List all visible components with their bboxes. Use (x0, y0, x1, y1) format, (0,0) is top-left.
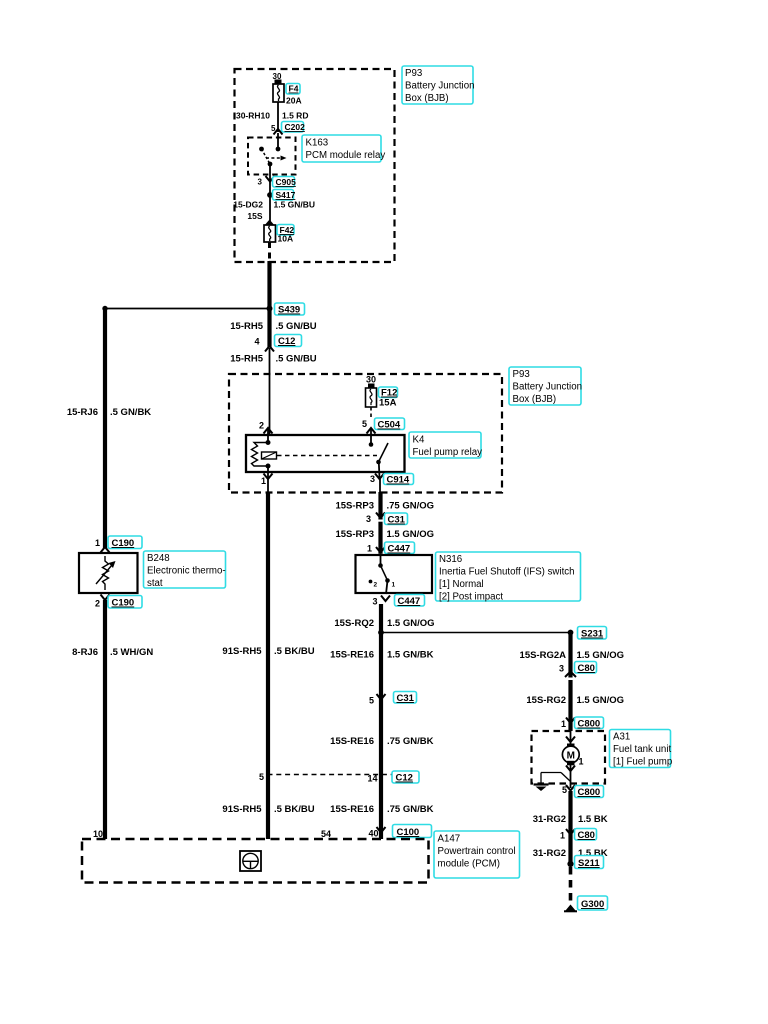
svg-text:8-RJ6: 8-RJ6 (72, 647, 98, 658)
svg-text:40: 40 (368, 829, 378, 839)
K4 coil top node (266, 440, 271, 445)
connector C914 (384, 474, 414, 486)
wire label 15-DG2 / 1.5 GN/BU (233, 200, 315, 210)
pin 1 (fuel pump) (579, 757, 584, 767)
wire label 91S-RH5 / .5 BK/BU (2) (222, 804, 314, 815)
motor M1 fuel pump (562, 746, 579, 763)
svg-text:C800: C800 (578, 719, 601, 730)
svg-text:15S-RE16: 15S-RE16 (330, 804, 374, 815)
chevron into B248 (101, 547, 110, 553)
label S231 (578, 627, 607, 640)
PCM module symbol (240, 851, 261, 871)
label K4 Fuel pump relay (409, 432, 482, 458)
svg-text:3: 3 (372, 597, 377, 607)
svg-text:1: 1 (579, 757, 584, 767)
svg-text:C447: C447 (398, 596, 421, 607)
svg-text:B248: B248 (147, 553, 170, 564)
pin 5 (C202) (271, 124, 276, 133)
svg-text:G300: G300 (581, 899, 604, 910)
svg-text:P93: P93 (405, 68, 422, 79)
svg-text:1.5 GN/OG: 1.5 GN/OG (387, 529, 435, 540)
A31 sender branch vertical (540, 773, 542, 785)
wire K4 pin3 internal (378, 462, 381, 478)
wire K4 pin3 to BJB2 edge (379, 479, 381, 492)
svg-text:module (PCM): module (PCM) (438, 859, 500, 870)
dashed wire F42 to box edge (268, 242, 271, 262)
svg-text:Box (BJB): Box (BJB) (405, 93, 449, 104)
K4 coil zigzag (252, 443, 269, 467)
box P93 Battery Junction Box (top) (235, 69, 395, 262)
svg-text:1: 1 (367, 544, 372, 554)
svg-text:1: 1 (392, 582, 396, 589)
chevron into K4 pin 5 (367, 428, 376, 434)
label F42 10A (277, 225, 294, 244)
pin 1 (C80 bottom) (560, 831, 565, 841)
svg-text:Fuel tank unit: Fuel tank unit (613, 744, 671, 755)
pin 30 (fuse F12) (366, 375, 376, 385)
label G300 (578, 896, 608, 910)
pin 10 (PCM) (93, 829, 103, 839)
chevron at C447 bottom (381, 596, 390, 602)
svg-text:C190: C190 (112, 538, 135, 549)
svg-text:2: 2 (95, 599, 100, 609)
svg-text:C31: C31 (388, 515, 406, 526)
chevron above motor (566, 737, 575, 743)
wire label 15S-RG2A / 1.5 GN/OG (520, 650, 624, 661)
svg-text:1.5 GN/OG: 1.5 GN/OG (387, 618, 435, 629)
chevron out of K4 pin 3 (375, 474, 384, 480)
PCM A147 dashed box (82, 839, 429, 883)
relay K4 box (246, 435, 405, 472)
wire label 15S-RE16 / .75 GN/BK (2) (330, 804, 433, 815)
svg-text:15S-RG2A: 15S-RG2A (520, 650, 567, 661)
svg-text:20A: 20A (286, 96, 302, 106)
svg-text:2: 2 (374, 582, 378, 589)
K163 switch arm (262, 149, 271, 164)
K4 coil core symbol (262, 452, 277, 459)
wire C905 to S417 (269, 181, 271, 221)
svg-text:1.5 GN/BU: 1.5 GN/BU (274, 200, 316, 210)
pin 5 (C31 second) (369, 696, 374, 706)
svg-text:[1] Fuel pump: [1] Fuel pump (613, 757, 672, 768)
svg-text:C80: C80 (578, 663, 595, 674)
wire label 15S-RE16 / 1.5 GN/BK (330, 650, 433, 661)
IFS fixed contact node (378, 563, 383, 568)
pin 3 (C31) (366, 514, 371, 524)
svg-text:5: 5 (362, 419, 367, 429)
connector C12 (275, 335, 302, 348)
fuel tank unit A31 dashed box (532, 731, 606, 784)
chevron out of B248 (101, 595, 110, 601)
wire label 31-RG2 / 1.5 BK (533, 814, 608, 825)
pin 5 (C504) (362, 419, 367, 429)
connector C12 (second) (392, 771, 419, 784)
chevron below motor (566, 766, 575, 772)
svg-text:5: 5 (369, 696, 374, 706)
wire K4 pin1 internal (267, 466, 269, 478)
pin 1 (C190) (95, 538, 100, 548)
pin 4 (C12) (254, 337, 259, 347)
fuse F4 terminal (275, 80, 282, 85)
fuse F4 (273, 84, 284, 102)
A31 internal ground (534, 785, 549, 792)
svg-text:S417: S417 (276, 190, 296, 200)
svg-text:30-RH10: 30-RH10 (236, 111, 270, 121)
svg-text:.5 GN/BK: .5 GN/BK (110, 407, 151, 418)
ground G300 symbol (564, 905, 577, 912)
chevron at C80 (565, 672, 576, 681)
wire K163 out (269, 164, 271, 180)
svg-text:1: 1 (95, 538, 100, 548)
svg-text:A31: A31 (613, 732, 630, 743)
svg-text:C100: C100 (397, 827, 420, 838)
splice S211 (567, 861, 573, 867)
pin 54 (PCM) (321, 829, 331, 839)
svg-text:S211: S211 (578, 858, 600, 869)
label K163 PCM module relay (302, 135, 385, 162)
wire label 15S-RP3 / 1.5 GN/OG (335, 529, 434, 540)
svg-text:15-RH5: 15-RH5 (230, 354, 263, 365)
label S417 (273, 190, 296, 201)
svg-text:3: 3 (366, 514, 371, 524)
wire into IFS (380, 554, 382, 566)
wire into K4 pin 2 (267, 429, 269, 443)
svg-text:1: 1 (560, 831, 565, 841)
K4 switch fixed contact (369, 442, 374, 447)
label A147 Powertrain control module (434, 831, 520, 878)
svg-text:10: 10 (93, 829, 103, 839)
pin 1 (K4) (261, 476, 266, 486)
svg-text:15-DG2: 15-DG2 (233, 200, 263, 210)
label A31 Fuel tank unit (610, 730, 673, 768)
node K163 fixed contact right (276, 147, 281, 152)
connector C31 (second) (394, 692, 417, 705)
label S439 (275, 303, 305, 316)
svg-text:Electronic thermo-: Electronic thermo- (147, 566, 226, 577)
chevron at C447 top (376, 547, 385, 556)
motor M1 top terminal (567, 744, 575, 749)
svg-text:C914: C914 (387, 475, 410, 486)
motor M1 bottom terminal (567, 761, 575, 766)
svg-text:2: 2 (259, 421, 264, 431)
pin 30 (fuse F4) (273, 72, 282, 81)
chevron at C800 bottom (566, 785, 575, 791)
svg-text:Battery Junction: Battery Junction (405, 81, 474, 92)
svg-text:15S-RP3: 15S-RP3 (335, 529, 374, 540)
wire label 15S (247, 211, 262, 221)
K4 actuation dashed link (277, 455, 377, 457)
svg-text:Powertrain control: Powertrain control (438, 846, 516, 857)
IFS switch arm (381, 566, 388, 581)
wire S439 branch horizontal (105, 308, 270, 310)
svg-text:1.5 GN/BK: 1.5 GN/BK (387, 650, 434, 661)
connector C190 (top) (108, 536, 142, 549)
pin 1 (C447) (367, 544, 372, 554)
svg-text:Battery Junction: Battery Junction (513, 382, 582, 393)
label B248 Electronic thermostat (144, 551, 226, 589)
wire label 8-RJ6 / .5 WH/GN (72, 647, 153, 658)
svg-text:.5 BK/BU: .5 BK/BU (274, 646, 315, 657)
pin 3 (K4) (370, 474, 375, 484)
splice S439 (267, 306, 273, 312)
wire C12 to BJB2 (269, 348, 271, 435)
thermostat B248 box (79, 553, 138, 593)
svg-text:1.5 RD: 1.5 RD (282, 111, 308, 121)
svg-text:.5 BK/BU: .5 BK/BU (274, 804, 315, 815)
wire left column S439 to B248 (thick) (103, 309, 107, 549)
svg-text:.75 GN/OG: .75 GN/OG (387, 501, 435, 512)
svg-text:1: 1 (561, 719, 566, 729)
chevron at C12 (265, 346, 274, 352)
label S211 (575, 856, 604, 870)
svg-text:A147: A147 (438, 834, 461, 845)
K4 switch pivot node (376, 460, 381, 465)
dashed wire S211 to G300 (569, 867, 573, 903)
svg-text:15-RH5: 15-RH5 (230, 321, 263, 332)
connector C202 (282, 122, 306, 133)
svg-text:K163: K163 (306, 138, 329, 149)
node K163 arm pivot (268, 162, 273, 167)
svg-text:.5 WH/GN: .5 WH/GN (110, 647, 153, 658)
connector C31 (385, 513, 408, 526)
wire label 30-RH10 / 1.5 RD (236, 111, 309, 121)
svg-text:N316: N316 (439, 554, 462, 565)
B248 thermistor arrow (96, 561, 116, 584)
wire IFS internal out (386, 581, 388, 595)
IFS switch N316 box (356, 555, 433, 593)
svg-text:1.5 GN/OG: 1.5 GN/OG (577, 695, 625, 706)
svg-text:Fuel pump relay: Fuel pump relay (413, 447, 483, 458)
svg-text:.5 GN/BU: .5 GN/BU (276, 321, 317, 332)
svg-text:31-RG2: 31-RG2 (533, 814, 566, 825)
wire label 15-RH5 / .5 GN/BU (2) (230, 354, 317, 365)
dashed wire F12 to C504 (370, 407, 372, 420)
IFS arm lower node (385, 578, 390, 583)
svg-text:.5 GN/BU: .5 GN/BU (276, 354, 317, 365)
label F12 15A (379, 387, 398, 409)
label P93 (top BJB) (402, 66, 474, 104)
svg-text:5: 5 (259, 772, 264, 782)
connector C80 (bottom) (575, 829, 597, 842)
wire C800 to S211 (thick) (568, 791, 572, 866)
pin 2 (C190) (95, 599, 100, 609)
chevron out of K4 pin 1 (264, 474, 273, 480)
pin 2 (K4) (259, 421, 264, 431)
pin 1 (C800) (561, 719, 566, 729)
arrow into fuse F42 (265, 220, 274, 226)
fuse F12 terminal (368, 384, 375, 389)
svg-text:C12: C12 (396, 773, 413, 784)
splice S231 (568, 630, 574, 636)
svg-text:1.5 BK: 1.5 BK (578, 814, 608, 825)
connector C447 (top) (385, 542, 415, 555)
K163 actuation dashed arrow (266, 156, 287, 161)
svg-text:F4: F4 (289, 84, 299, 94)
K4 coil bottom node (266, 464, 271, 469)
wire label 15S-RQ2 / 1.5 GN/OG (334, 618, 434, 629)
svg-text:K4: K4 (413, 435, 425, 446)
chevron out of relay K163 (266, 176, 275, 182)
node left branch corner (102, 306, 107, 311)
pin 3 (C447 bottom) (372, 597, 377, 607)
chevron at C31 (376, 513, 385, 522)
svg-text:C190: C190 (112, 598, 135, 609)
pin 40 (C100) (368, 829, 378, 839)
svg-text:.75 GN/BK: .75 GN/BK (387, 736, 434, 747)
wire motor to C800 exit (570, 765, 572, 788)
wire branch to S231 (381, 632, 571, 634)
svg-text:30: 30 (366, 375, 376, 385)
chevron into relay K163 (274, 129, 283, 135)
svg-text:15S: 15S (247, 211, 262, 221)
svg-text:S231: S231 (581, 629, 604, 640)
svg-text:S439: S439 (278, 305, 300, 316)
svg-text:1: 1 (261, 476, 266, 486)
fuse F12 (366, 388, 377, 407)
svg-text:15S-RQ2: 15S-RQ2 (334, 618, 374, 629)
svg-text:15S-RP3: 15S-RP3 (335, 501, 374, 512)
wire label 15S-RP3 / .75 GN/OG (335, 501, 434, 512)
svg-text:1.5 GN/OG: 1.5 GN/OG (577, 650, 625, 661)
label F4 20A (286, 84, 302, 106)
svg-text:91S-RH5: 91S-RH5 (222, 646, 262, 657)
inline connector C12 dashed line (268, 774, 394, 776)
pin 3 (C80) (559, 664, 564, 674)
svg-text:C447: C447 (388, 544, 411, 555)
pin 3 (C905) (258, 178, 263, 187)
svg-text:3: 3 (258, 178, 263, 187)
wire K4 pin1 to BJB2 edge (267, 479, 269, 492)
svg-text:C202: C202 (285, 122, 306, 132)
chevron at C800 (566, 718, 575, 724)
wire K4 pin3 to IFS (thick) (378, 492, 382, 554)
svg-text:3: 3 (559, 664, 564, 674)
svg-text:stat: stat (147, 578, 163, 589)
connector C190 (bottom) (108, 596, 142, 609)
wire label 91S-RH5 / .5 BK/BU (222, 646, 314, 657)
svg-text:15S-RE16: 15S-RE16 (330, 736, 374, 747)
wire IFS to junction (thick) (379, 604, 383, 839)
svg-text:91S-RH5: 91S-RH5 (222, 804, 262, 815)
chevron at C80 bottom (566, 829, 575, 835)
chevron into K4 pin 2 (264, 428, 273, 434)
svg-text:15S-RG2: 15S-RG2 (526, 695, 566, 706)
B248 thermistor zigzag (103, 556, 109, 590)
connector C800 (top) (575, 717, 604, 730)
svg-text:15S-RE16: 15S-RE16 (330, 650, 374, 661)
svg-text:31-RG2: 31-RG2 (533, 848, 566, 859)
connector C800 (bottom) (575, 786, 604, 799)
IFS position 1 marker (392, 582, 396, 589)
wire label 15-RH5 / .5 GN/BU (230, 321, 317, 332)
connector C100 (393, 825, 432, 839)
pin 14 (C12 inline) (367, 774, 377, 784)
connector C905 (273, 177, 297, 188)
svg-text:C12: C12 (278, 336, 295, 347)
splice S417 (267, 192, 273, 198)
wire BJB1 to C12 (thick) (267, 261, 271, 347)
A31 sender branch diagonal (561, 773, 571, 782)
svg-text:10A: 10A (278, 234, 294, 244)
svg-text:C80: C80 (578, 830, 595, 841)
fuse F42 (264, 225, 276, 242)
wire F4 to C202 (277, 102, 279, 132)
svg-text:[1] Normal: [1] Normal (439, 579, 484, 590)
svg-text:C800: C800 (578, 787, 601, 798)
svg-text:15A: 15A (379, 398, 397, 409)
svg-text:C905: C905 (276, 177, 297, 187)
box P93 Battery Junction Box (second) (229, 374, 502, 493)
node branch to S231 (378, 630, 384, 636)
K4 switch arm (379, 443, 389, 462)
node K163 fixed contact left (259, 147, 264, 152)
label N316 Inertia Fuel Shutoff switch (436, 552, 581, 603)
wire label 15S-RE16 / .75 GN/BK (330, 736, 433, 747)
svg-text:C504: C504 (378, 420, 401, 431)
connector C80 (top) (575, 662, 597, 675)
label P93 (second BJB) (509, 367, 582, 405)
wire K4 pin1 to PCM (thick) (266, 492, 270, 839)
relay K163 dashed box (248, 138, 296, 175)
svg-text:M: M (567, 751, 575, 762)
connector C447 (bottom) (395, 595, 425, 608)
wire label 15-RJ6 / .5 GN/BK (67, 407, 151, 418)
svg-text:15-RJ6: 15-RJ6 (67, 407, 98, 418)
wire into K163 (277, 133, 279, 149)
pin 5 (C800 bottom) (562, 785, 567, 795)
wire label 15S-RG2 / 1.5 GN/OG (526, 695, 624, 706)
chevron at C100 (377, 827, 386, 833)
svg-text:Inertia Fuel Shutoff (IFS) swi: Inertia Fuel Shutoff (IFS) switch (439, 567, 575, 578)
svg-text:[2] Post impact: [2] Post impact (439, 592, 503, 603)
svg-text:14: 14 (367, 774, 377, 784)
wire C504 to K4 (370, 429, 372, 445)
wire B248 to PCM (thick) (103, 600, 107, 839)
wire S231 to A31 (thick) (568, 633, 572, 732)
wire label 31-RG2 / 1.5 BK (2) (533, 848, 608, 859)
IFS position 2 dot (369, 580, 378, 589)
wire into A31 (570, 731, 572, 744)
pin 5 (C12 inline) (259, 772, 264, 782)
svg-text:3: 3 (370, 474, 375, 484)
svg-text:Box (BJB): Box (BJB) (513, 394, 557, 405)
svg-text:P93: P93 (513, 369, 530, 380)
connector C504 (375, 418, 405, 431)
svg-text:4: 4 (254, 337, 259, 347)
svg-text:.75 GN/BK: .75 GN/BK (387, 804, 434, 815)
chevron at C31 second (377, 694, 386, 700)
svg-text:PCM module relay: PCM module relay (306, 150, 386, 161)
A31 sender branch horizontal (541, 772, 561, 774)
svg-text:54: 54 (321, 829, 331, 839)
svg-text:C31: C31 (397, 693, 415, 704)
